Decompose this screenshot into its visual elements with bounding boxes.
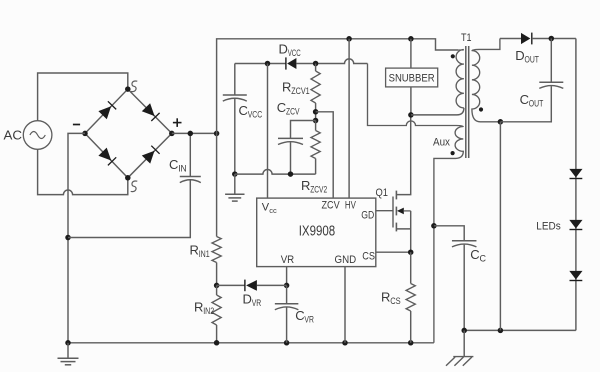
- primary polarity dot: [451, 54, 455, 58]
- svg-text:VCC: VCC: [248, 110, 263, 121]
- LED D6: [569, 220, 582, 230]
- wire snubber top: [410, 39, 412, 68]
- wire positive rail: [172, 132, 217, 134]
- svg-text:SNUBBER: SNUBBER: [389, 72, 435, 84]
- node HV pin tap on top rail: [346, 36, 352, 42]
- pin label CS: [362, 251, 375, 263]
- svg-text:C: C: [277, 100, 286, 115]
- node COUT top junction: [549, 36, 555, 42]
- svg-text:ZCV: ZCV: [322, 199, 341, 211]
- svg-text:CS: CS: [362, 251, 375, 263]
- wire negative rail (left vertex down to ground rail): [68, 133, 85, 342]
- svg-text:ZCV1: ZCV1: [291, 86, 310, 97]
- earth ground symbol (below CC): [446, 330, 473, 365]
- svg-text:R: R: [381, 290, 390, 305]
- transformer T1 core: [466, 46, 469, 158]
- resistor RZCV1: [311, 64, 320, 121]
- svg-text:C: C: [470, 247, 479, 262]
- diode DOUT (points right): [521, 33, 532, 45]
- svg-text:cc: cc: [269, 206, 277, 215]
- wire local ground spur (hop over VCC pin wire): [235, 159, 316, 175]
- svg-text:R: R: [282, 80, 291, 95]
- wire AC top to bridge top: [38, 73, 128, 121]
- transistor Q1 body arrow: [397, 208, 411, 215]
- wire CS pin: [376, 251, 411, 253]
- node ZCV top tap: [313, 61, 319, 67]
- svg-text:D: D: [243, 292, 252, 307]
- svg-text:VCC: VCC: [288, 48, 301, 59]
- label CZCV: [277, 100, 300, 118]
- node VR/DVR/CVR junction: [284, 283, 290, 289]
- wire HV top rail: [217, 39, 459, 134]
- capacitor COUT: [500, 39, 563, 122]
- label RZCV2: [301, 178, 327, 196]
- svg-text:IN2: IN2: [203, 306, 214, 317]
- node ZCV divider junction: [313, 109, 319, 115]
- wire GND pin: [344, 267, 346, 343]
- svg-text:C: C: [239, 103, 248, 118]
- resistor RIN2: [212, 285, 221, 342]
- LED D7: [569, 271, 582, 281]
- node CIN top: [188, 131, 194, 137]
- aux polarity dot: [451, 151, 455, 155]
- svg-text:C: C: [479, 254, 486, 265]
- wire bottom ground rail: [68, 342, 434, 344]
- label RIN1: [190, 243, 210, 261]
- label IX9908: [299, 223, 336, 239]
- label RZCV1: [282, 80, 310, 98]
- wire DOUT row left: [500, 38, 521, 40]
- wire DVR row left segment: [217, 284, 245, 286]
- svg-text:IX9908: IX9908: [299, 223, 336, 239]
- bridge diode D2 (top vertex to right vertex): [142, 103, 160, 121]
- svg-text:VR: VR: [281, 254, 295, 266]
- node bridge bottom vertex: [125, 175, 131, 181]
- resistor RIN1: [212, 133, 221, 285]
- node HV feed on positive rail: [214, 131, 220, 137]
- label COUT: [520, 92, 544, 110]
- label DOUT: [515, 48, 539, 66]
- label minus sign: [73, 124, 80, 126]
- wire DVR row right segment: [257, 284, 287, 286]
- AC source V1: [4, 121, 52, 150]
- svg-text:C: C: [169, 157, 178, 172]
- label Q1: [376, 187, 389, 199]
- AC waveform mark bottom: [131, 181, 138, 192]
- node CVR bottom: [284, 340, 290, 346]
- svg-text:OUT: OUT: [524, 55, 539, 66]
- label DVCC: [279, 42, 301, 60]
- wire DVCC row right segment (hop over HV): [296, 59, 367, 64]
- wire primary bottom lead: [411, 108, 464, 115]
- svg-text:R: R: [301, 178, 310, 193]
- node CVCC ground junction: [232, 171, 238, 177]
- bridge diode D3 (left vertex to bottom vertex): [98, 148, 116, 166]
- node GND pin bottom: [342, 340, 348, 346]
- node RCS bottom: [408, 340, 414, 346]
- svg-text:VR: VR: [304, 314, 314, 325]
- label RIN2: [194, 300, 214, 318]
- svg-text:Aux: Aux: [433, 136, 450, 148]
- node RIN2 bottom: [214, 340, 220, 346]
- diode DVCC (cathode bar left, points left): [286, 57, 297, 69]
- pin label VCC: [262, 201, 277, 215]
- label T1: [461, 32, 472, 44]
- diode DVR (points left toward divider): [245, 280, 257, 292]
- node secondary return bottom: [498, 328, 504, 334]
- secondary polarity dot: [479, 107, 483, 111]
- capacitor CVCC: [223, 64, 247, 175]
- wire snubber bottom: [410, 87, 412, 115]
- label LEDs: [536, 221, 561, 233]
- label Aux: [433, 136, 450, 148]
- wire DVCC row left segment: [235, 63, 286, 65]
- AC waveform mark top: [131, 81, 138, 92]
- bridge rectifier arms: [85, 89, 172, 178]
- node bridge left vertex: [82, 131, 88, 137]
- transformer T1 aux winding: [368, 64, 464, 343]
- node CZCV bottom: [288, 171, 294, 177]
- svg-text:R: R: [190, 243, 199, 258]
- transistor Q1 source lead: [396, 211, 410, 252]
- svg-text:IN: IN: [178, 164, 187, 175]
- bridge diode D1 (left vertex to top vertex): [98, 101, 116, 119]
- resistor RZCV2: [311, 121, 320, 159]
- svg-text:D: D: [279, 42, 288, 57]
- svg-text:IN1: IN1: [199, 249, 210, 260]
- svg-text:AC: AC: [4, 129, 23, 143]
- wire bottom right return: [464, 329, 576, 331]
- capacitor CIN: [68, 133, 201, 237]
- snubber box: [386, 68, 438, 87]
- svg-text:HV: HV: [345, 199, 356, 211]
- svg-text:OUT: OUT: [529, 99, 544, 110]
- node secondary return junction: [498, 119, 504, 125]
- capacitor CC: [434, 226, 477, 331]
- svg-text:LEDs: LEDs: [536, 221, 561, 233]
- op-amp U1 IX9908 body: [257, 198, 376, 267]
- transistor Q1 channel segments: [395, 191, 397, 232]
- wire VR pin: [286, 267, 288, 286]
- svg-text:GND: GND: [335, 254, 357, 266]
- wire LED string feed: [575, 39, 577, 331]
- bridge diode D4 (bottom vertex to right vertex): [142, 146, 160, 164]
- wire secondary return drop: [499, 122, 501, 331]
- capacitor CZCV: [278, 121, 316, 175]
- svg-text:Q1: Q1: [376, 187, 389, 199]
- node primary bottom / drain junction: [408, 112, 414, 118]
- resistor RCS: [406, 252, 415, 343]
- label CIN: [169, 157, 187, 175]
- svg-text:C: C: [520, 92, 529, 107]
- label CVCC: [239, 103, 263, 121]
- wire AC bottom to bridge bottom (hop over negative rail): [38, 149, 128, 194]
- wire GD pin to gate: [376, 210, 393, 212]
- node VCC tap: [265, 61, 271, 67]
- svg-text:GD: GD: [361, 210, 374, 222]
- svg-text:C: C: [295, 308, 304, 323]
- svg-text:ZCV: ZCV: [286, 107, 300, 118]
- transformer T1 secondary winding: [472, 39, 501, 122]
- label CC: [470, 247, 486, 265]
- node snubber tap on top rail: [408, 36, 414, 42]
- node CZCV tap: [313, 118, 319, 124]
- ground symbol (VCC local ground): [225, 174, 244, 201]
- node bridge right vertex (+): [169, 131, 175, 137]
- svg-text:CS: CS: [390, 296, 401, 307]
- label DVR: [243, 292, 262, 310]
- svg-text:R: R: [194, 300, 203, 315]
- svg-text:T1: T1: [461, 32, 472, 44]
- node CS/source/RCS junction: [408, 249, 414, 255]
- svg-text:ZCV2: ZCV2: [310, 185, 327, 196]
- transformer T1 primary winding: [456, 50, 464, 108]
- capacitor CVR: [275, 285, 299, 342]
- ground symbol (signal ground, bottom left): [58, 343, 79, 365]
- node aux/CC tap: [431, 223, 437, 229]
- node negative rail / CIN junction: [65, 235, 71, 241]
- wire HV pin: [348, 39, 350, 198]
- svg-text:D: D: [515, 48, 524, 63]
- label RCS: [381, 290, 401, 308]
- pin label ZCV: [322, 199, 341, 211]
- wire DOUT row right: [532, 38, 576, 40]
- pin label HV: [345, 199, 356, 211]
- wire VCC pin: [267, 64, 269, 199]
- transistor Q1 drain lead: [396, 115, 410, 195]
- node RIN1/RIN2/DVR junction: [214, 283, 220, 289]
- pin label GD: [361, 210, 374, 222]
- pin label VR: [281, 254, 295, 266]
- label CVR: [295, 308, 314, 326]
- pin label GND: [335, 254, 357, 266]
- node earth junction: [461, 328, 467, 334]
- node ground rail left: [65, 340, 71, 346]
- LED D5: [569, 169, 582, 179]
- label plus sign: [173, 118, 182, 127]
- transistor Q1 gate bar: [392, 197, 394, 228]
- svg-text:VR: VR: [252, 298, 262, 309]
- wire ZCV pin: [316, 112, 334, 198]
- node bridge top vertex: [125, 86, 131, 92]
